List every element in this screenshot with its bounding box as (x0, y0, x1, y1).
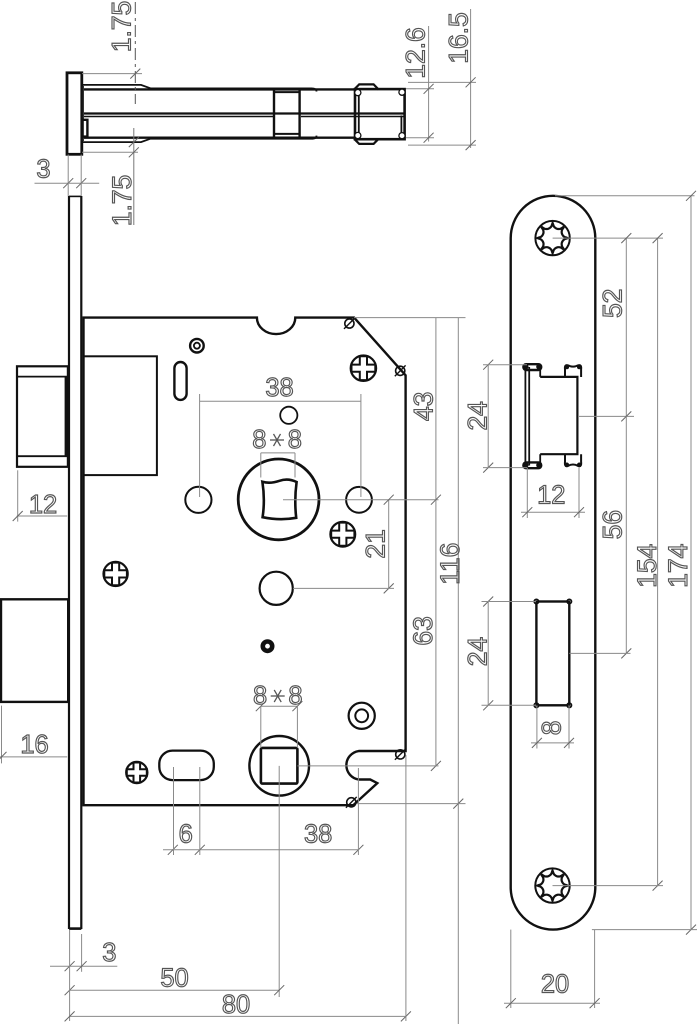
torx top centerline (553, 237, 663, 239)
torx screw bottom outer circle (535, 868, 569, 902)
vertical slot capsule (174, 362, 186, 400)
top view body top flange edge (82, 85, 317, 92)
top view body bottom outline (82, 136, 356, 138)
latch window top step (539, 370, 541, 377)
svg-text:80: 80 (222, 991, 250, 1019)
dimension 24 top line (487, 365, 489, 468)
phillips screw mid-right (330, 522, 355, 547)
lower hub circle (249, 736, 309, 796)
lower hub vertical centerline (278, 766, 280, 997)
torx screw top outer circle (535, 221, 569, 255)
lower hub centerline horizontal (297, 765, 438, 767)
latch window inner rectangle (540, 377, 577, 454)
extension line case top (354, 317, 466, 319)
dimension 16 left line (0, 756, 67, 758)
dimension 12 side line (521, 511, 585, 513)
svg-text:116: 116 (435, 543, 465, 585)
dimension 24 bottom line (487, 602, 489, 706)
dimension 16 left tick (0, 752, 7, 762)
latch window bottom-right cup (565, 454, 581, 466)
latch housing rectangle (84, 356, 157, 475)
lock case outline (84, 318, 406, 806)
dimension 1.75 bottom ticks (129, 137, 139, 147)
front faceplate strip (69, 196, 81, 929)
svg-text:8: 8 (288, 426, 302, 454)
extension line body lower (408, 144, 476, 146)
top view middle block right wall (298, 90, 300, 138)
deadbolt rectangle (1, 599, 68, 702)
deadbolt window corner nubs (534, 599, 571, 707)
dimension 8 ticks (532, 738, 542, 748)
svg-text:8: 8 (252, 426, 266, 454)
top view case front edge (82, 86, 84, 141)
svg-text:38: 38 (304, 821, 332, 849)
handle fixing hole left (185, 487, 211, 513)
top view mid seam line 2b (301, 116, 404, 118)
latch centerline horizontal (578, 415, 634, 417)
dimension 56 tick bottom (621, 648, 631, 658)
top view mid seam line 2a (83, 116, 273, 118)
svg-text:63: 63 (408, 616, 438, 645)
svg-text:3: 3 (102, 939, 116, 967)
svg-text:24: 24 (463, 401, 493, 430)
svg-text:24: 24 (462, 637, 492, 666)
latch window bottom-left cap (523, 462, 541, 468)
latch window top-right cup (565, 365, 581, 377)
dimension 1.75 top ticks (130, 69, 140, 79)
latch bolt bevel lines (17, 377, 68, 457)
dimension 3 left line (35, 182, 100, 184)
top view middle block left wall (273, 90, 275, 138)
dimension 24 bottom ext lines (482, 601, 537, 603)
spindle hub circle (238, 459, 319, 540)
corner screw bottom-right-2 (346, 797, 357, 808)
hub centerline horizontal (283, 499, 439, 501)
torx screw bottom star (537, 871, 567, 901)
dimension 52 ticks (621, 233, 631, 243)
svg-text:50: 50 (160, 965, 188, 993)
dimension 8 ext lines (536, 705, 538, 748)
side faceplate rounded plate (511, 196, 596, 930)
top view body bottom flange edge (82, 136, 317, 143)
extension line 12.6 bottom (406, 137, 434, 139)
dimension 3 bottom line (50, 965, 117, 967)
dimension 50 ticks (65, 985, 75, 995)
top view body top outline (82, 88, 356, 90)
screw hole with ring top (190, 339, 204, 353)
dimension 16.5 line (470, 9, 472, 148)
latch window bottom step (539, 454, 541, 462)
top view faceplate (end plate seen from above) (67, 73, 82, 155)
svg-text:21: 21 (361, 529, 391, 558)
dimension 6 ext lines (173, 767, 175, 855)
dimension 12 left tick (13, 511, 23, 521)
svg-text:12.6: 12.6 (401, 27, 431, 79)
dimension 8 line (531, 742, 574, 744)
dimension 154 ticks (653, 233, 663, 243)
top view centerline (134, 2, 136, 104)
phillips screw upper-right (351, 356, 376, 381)
dimension 38 top line (200, 400, 361, 402)
dimension 154 line (657, 238, 659, 886)
extension line faceplate bottom (82, 151, 138, 153)
dimension 21 ticks (384, 495, 394, 505)
dimension 56 line (625, 416, 627, 653)
dimension 12 side ext lines (526, 468, 528, 518)
faceplate-strip extension lines for 3mm (67, 155, 69, 197)
deadbolt centerline horizontal (569, 652, 630, 654)
ring hole lower-right (349, 703, 375, 729)
dimension 20 line (504, 1002, 600, 1004)
svg-text:52: 52 (598, 289, 628, 318)
dimension 3 left ticks (63, 178, 73, 188)
extension line faceplate top (82, 73, 142, 75)
torx screw top star (538, 223, 568, 253)
dimension 8x8 upper ext lines (260, 453, 262, 478)
phillips screw lower-left (126, 762, 147, 783)
top view middle block bottom inner line (274, 133, 300, 135)
dimension 12.6 ticks (424, 84, 434, 94)
deadbolt window rectangle (536, 602, 569, 706)
latch window top-left cap (523, 364, 541, 370)
dimension 63 line (435, 500, 437, 766)
dimension 16.5 ticks (466, 77, 476, 87)
dimension 3 bottom ext (81, 934, 83, 972)
top view end block bottom tab (354, 139, 379, 144)
dimension 43 line (435, 318, 437, 500)
extension line case bottom (357, 803, 466, 805)
dimension 174 line (690, 196, 692, 930)
top view latch tip rect (83, 120, 88, 137)
corner screw bottom-right-1 (395, 749, 406, 760)
dimension 16 left ext (1, 706, 3, 764)
dimension 50 left ext (69, 930, 71, 1021)
center circle horizontal line (293, 587, 394, 589)
dimension 8x8 lower ext lines (260, 706, 262, 748)
dimension 12 left line (17, 515, 67, 517)
dimension 50 line (70, 989, 280, 991)
extension line 12.6 top (406, 88, 434, 90)
dimension 116 line (457, 318, 459, 1024)
horizontal oval slot bottom (159, 751, 214, 781)
svg-text:12: 12 (29, 491, 57, 519)
dimension 21 line (388, 500, 390, 589)
extension line plate top (555, 195, 695, 197)
spindle square 8x8 upper (262, 480, 296, 520)
dimension 3 bottom tick (65, 961, 75, 971)
svg-text:16: 16 (20, 731, 48, 759)
dimension 12 side ticks (522, 507, 532, 517)
dimension 8x8 upper line (261, 452, 295, 454)
top view end block inner right wall (400, 116, 402, 140)
dimension 116 ticks (453, 799, 463, 809)
extension line plate bottom (592, 929, 697, 931)
svg-text:43: 43 (408, 392, 438, 421)
dimension 38 top ext lines (199, 394, 201, 497)
svg-text:1.75: 1.75 (107, 1, 137, 53)
svg-text:38: 38 (265, 374, 293, 402)
dimension 52 line (625, 238, 627, 416)
dimension 6+38 bottom ticks (168, 845, 178, 855)
latch window left column (525, 367, 529, 466)
svg-text:12: 12 (537, 482, 565, 510)
dimension 63 tick bottom (431, 761, 441, 771)
svg-text:20: 20 (541, 970, 569, 998)
handle fixing hole right (346, 487, 372, 513)
svg-text:8: 8 (253, 682, 267, 710)
dimension 43 ticks (431, 495, 441, 505)
svg-text:8: 8 (288, 682, 302, 710)
svg-text:16.5: 16.5 (444, 12, 474, 64)
dimension 80 right ext (405, 755, 407, 1021)
top view end block inner left wall (358, 89, 360, 139)
dimension 24 top ext lines (483, 364, 527, 366)
svg-text:154: 154 (632, 544, 662, 588)
dimension 174 ticks (686, 191, 696, 201)
torx bottom centerline (553, 885, 664, 887)
svg-text:6: 6 (179, 821, 193, 849)
dimension 8x8 lower line (261, 705, 298, 707)
dimension 80 ticks (65, 1011, 75, 1021)
dimension 8x8 lower ticks (256, 701, 266, 711)
dimension 12.6 line (428, 26, 430, 142)
latch bolt outer rectangle (17, 366, 68, 467)
top view mid seam line 1 (83, 112, 404, 114)
dimension 1.75 bottom line (133, 128, 135, 225)
top view end block corner relief holes (355, 89, 405, 139)
dimension 20 ticks (506, 998, 516, 1008)
extension line body upper (408, 81, 476, 83)
corner screw top-right-2 (395, 365, 406, 376)
dimension 12 left ext (17, 470, 19, 521)
svg-text:3: 3 (36, 156, 50, 184)
top view end block top tab (354, 84, 379, 89)
center circle (260, 572, 293, 605)
top view end block (355, 89, 405, 139)
spindle square 8x8 lower (261, 748, 298, 784)
svg-text:56: 56 (598, 510, 628, 539)
corner screw top-right-1 (344, 318, 355, 329)
dimension 24 top ticks (483, 360, 493, 370)
svg-text:8: 8 (537, 721, 567, 736)
top view middle block top inner line (274, 91, 300, 93)
small ring hole center (263, 642, 272, 651)
small hole above spindle (280, 407, 297, 424)
phillips screw mid-left (104, 562, 128, 586)
dimension 38 bottom right ext (357, 768, 359, 855)
svg-text:174: 174 (663, 544, 693, 588)
dimension 6+38 bottom line (163, 849, 358, 851)
svg-text:1.75: 1.75 (107, 175, 137, 227)
dimension 80 line (70, 1015, 406, 1017)
dimension 24 bottom ticks (483, 597, 493, 607)
dimension 20 ext lines (510, 930, 512, 1008)
